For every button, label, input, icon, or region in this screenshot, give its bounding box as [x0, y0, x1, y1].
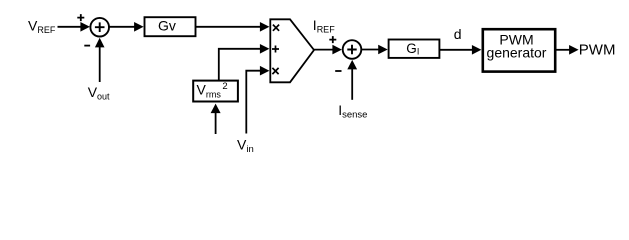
multiply symbol input 3 — [272, 68, 278, 74]
svg-text:Vin: Vin — [237, 136, 254, 155]
svg-text:Vout: Vout — [88, 84, 110, 102]
wire Vout feedback into S1 — [95, 38, 105, 82]
block Gv — [145, 17, 196, 36]
plus sign at S1 input — [77, 14, 84, 21]
svg-text:Isense: Isense — [338, 102, 367, 121]
minus sign at S2 feedback input — [335, 70, 341, 72]
wire GI to PWM generator, node d — [439, 45, 481, 55]
plus sign at S2 input — [329, 36, 336, 43]
wire Gv to multiplier — [196, 22, 270, 32]
wire PWM output — [555, 45, 578, 55]
svg-text:generator: generator — [487, 45, 547, 61]
svg-text:PWM: PWM — [579, 41, 616, 58]
block PWM generator — [483, 29, 555, 71]
wire S1 to Gv — [109, 22, 143, 32]
multiply symbol input 1 — [273, 25, 279, 31]
wire input into Vrms block — [211, 104, 221, 134]
plus symbol input 2 — [272, 46, 279, 53]
wire Vin to multiplier — [246, 66, 269, 134]
wire S2 to GI — [362, 45, 388, 55]
wire VREF to summer S1 — [58, 22, 90, 32]
wire multiplier output to summer S2, node IREF — [314, 45, 342, 55]
minus sign at S1 feedback input — [84, 45, 90, 47]
summing junction S2 — [343, 40, 362, 59]
svg-text:Gv: Gv — [158, 18, 176, 34]
summing junction S1 — [90, 18, 109, 37]
block Vrms squared — [193, 81, 238, 102]
multiplier block U1 — [270, 19, 314, 82]
svg-text:d: d — [454, 26, 462, 42]
wire Vrms2 output to multiplier — [219, 44, 270, 80]
wire Isense into S2 — [347, 60, 357, 100]
svg-text:VREF: VREF — [28, 18, 56, 36]
svg-text:IREF: IREF — [313, 17, 335, 35]
block GI — [389, 40, 440, 58]
